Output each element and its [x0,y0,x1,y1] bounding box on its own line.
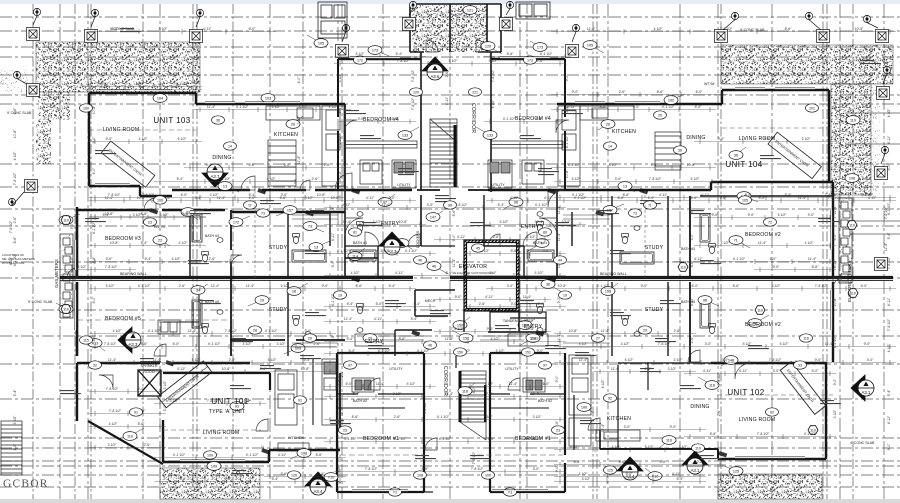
svg-text:102: 102 [668,98,674,102]
left wing bedroom5 bottom wall [77,362,250,364]
svg-text:9′-0″: 9′-0″ [331,260,335,268]
section marker A3.1 [851,375,874,401]
svg-text:8′-6″: 8′-6″ [619,460,627,464]
svg-text:7′-8 1/2″: 7′-8 1/2″ [887,318,891,331]
svg-text:172: 172 [233,220,239,224]
closet shelf lines mid band [292,215,610,347]
keynote 36 [541,280,562,292]
svg-text:6′-0″: 6′-0″ [812,369,820,373]
svg-text:11′-4″: 11′-4″ [297,155,301,164]
svg-text:10′-8″: 10′-8″ [222,367,231,371]
svg-text:9′-0″: 9′-0″ [712,213,720,217]
svg-text:3′-0″: 3′-0″ [427,203,435,207]
svg-text:7′-8 1/2″: 7′-8 1/2″ [142,193,155,197]
svg-text:92: 92 [608,396,612,400]
svg-text:36: 36 [734,153,738,157]
svg-text:3 1/2″: 3 1/2″ [210,193,220,197]
svg-text:101: 101 [809,106,815,110]
svg-text:5′-4″: 5′-4″ [785,193,793,197]
svg-text:2′-6″: 2′-6″ [394,415,402,419]
svg-text:7′-8 1/2″: 7′-8 1/2″ [757,432,770,436]
svg-text:3′-0″: 3′-0″ [281,193,289,197]
lower stair treads [460,371,486,440]
keynote 100 [577,403,594,413]
svg-text:DINING: DINING [212,155,231,161]
keynote 148 [737,192,758,202]
svg-text:10′-8″: 10′-8″ [687,163,696,167]
svg-text:4 1/2″: 4 1/2″ [243,342,253,346]
svg-text:115: 115 [83,338,89,342]
svg-text:BEARING WALL: BEARING WALL [600,272,627,276]
svg-text:4′-1 1/2″: 4′-1 1/2″ [138,284,151,288]
svg-text:3 1/2″: 3 1/2″ [163,380,167,390]
svg-text:110: 110 [127,434,133,438]
svg-text:6′-0″: 6′-0″ [261,444,265,452]
svg-text:4′-1 1/2″: 4′-1 1/2″ [833,335,837,348]
svg-text:KITCHEN: KITCHEN [607,416,631,422]
svg-text:BATH #1: BATH #1 [353,241,367,245]
svg-text:11′-4″: 11′-4″ [611,367,620,371]
concrete stipple: bottom-right patio [718,474,822,499]
svg-text:4′-11″: 4′-11″ [884,58,888,67]
column (342,51) [336,45,349,58]
svg-text:10′-8″: 10′-8″ [833,100,837,109]
svg-text:109: 109 [211,464,217,468]
svg-text:4′-11″: 4′-11″ [342,203,351,207]
svg-text:3 1/2″: 3 1/2″ [297,115,301,125]
svg-text:KITCHEN: KITCHEN [612,129,636,135]
svg-text:5 1/2″: 5 1/2″ [192,358,202,362]
svg-text:ELECTRIC METERS: ELECTRIC METERS [847,261,852,302]
unit 104 bottom / right wing top [488,182,833,190]
svg-text:2′-6″: 2′-6″ [318,472,326,476]
svg-text:6′-0″: 6′-0″ [249,27,257,31]
svg-text:104: 104 [157,96,163,100]
svg-text:f1: f1 [734,238,737,242]
svg-text:9′-0″: 9′-0″ [92,136,96,144]
svg-text:5′-4″: 5′-4″ [206,163,214,167]
svg-text:9′-0″: 9′-0″ [833,378,837,386]
unit 102 living walls [718,362,826,459]
svg-text:3′-0″: 3′-0″ [705,342,713,346]
svg-text:5 1/2″: 5 1/2″ [572,177,582,181]
keynote 119 [839,114,860,124]
svg-text:110: 110 [63,307,69,311]
svg-text:4′-1 1/2″: 4′-1 1/2″ [861,193,874,197]
svg-text:3 1/2″: 3 1/2″ [570,445,580,449]
svg-text:26: 26 [658,113,662,117]
svg-text:4 1/2″: 4 1/2″ [612,445,622,449]
svg-text:11′-4″: 11′-4″ [344,317,353,321]
svg-text:11′-4″: 11′-4″ [587,27,596,31]
svg-text:11′-4″: 11′-4″ [565,105,569,114]
svg-text:8′-6″: 8′-6″ [112,27,120,31]
svg-text:5′-4″: 5′-4″ [389,284,397,288]
svg-text:10′-8″: 10′-8″ [13,129,17,138]
svg-text:9′-0″: 9′-0″ [322,284,330,288]
svg-text:3 1/2″: 3 1/2″ [579,342,589,346]
concrete stipple: bottom-left patio [160,468,260,499]
entry vestibule walls right [484,195,524,278]
svg-text:11′-4″: 11′-4″ [557,333,561,342]
unit101 entry hall wall [230,339,345,341]
keynote 172 [229,216,250,226]
concrete stipple: top-right band [721,45,893,84]
bedroom band top walls [338,58,565,61]
svg-text:10′-8″: 10′-8″ [136,82,145,86]
svg-text:BEDROOM #2: BEDROOM #2 [745,322,781,328]
svg-text:7′-8 1/2″: 7′-8 1/2″ [825,193,838,197]
svg-text:4 1/2″: 4 1/2″ [139,137,149,141]
svg-text:125: 125 [607,468,613,472]
grid bubble flag [342,24,350,42]
svg-text:5 1/2″: 5 1/2″ [178,137,188,141]
column (33,90) [27,84,40,97]
upper stair dark stringer [454,125,457,187]
svg-text:4 1/2″: 4 1/2″ [805,241,815,245]
svg-text:11′-4″: 11′-4″ [523,295,532,299]
keynote 13 [309,241,330,251]
svg-text:8′-6″: 8′-6″ [452,209,456,217]
svg-text:2′-6″: 2′-6″ [209,257,217,261]
svg-text:4′-1 1/2″: 4′-1 1/2″ [344,437,357,441]
svg-text:4′-1 1/2″: 4′-1 1/2″ [804,432,817,436]
keynote f1 [729,236,750,248]
svg-text:2′-6″: 2′-6″ [312,177,320,181]
wall: unit103/corridor mid wall [172,189,412,191]
svg-text:28: 28 [253,328,257,332]
keynote 133 [476,127,497,139]
svg-text:23: 23 [556,428,560,432]
corridor walls top-center [420,52,422,190]
svg-text:5′-4″: 5′-4″ [543,249,551,253]
svg-text:5 1/2″: 5 1/2″ [535,271,545,275]
svg-text:4′-1 1/2″: 4′-1 1/2″ [394,437,407,441]
svg-text:148: 148 [728,358,734,362]
keynote H [528,239,549,251]
svg-text:8′-6″: 8′-6″ [13,107,17,115]
svg-text:10′-8″: 10′-8″ [92,105,96,114]
diagonal media center unit102 [780,362,826,415]
tandem closet center bottom [490,312,546,332]
keynote 109 [200,460,221,470]
section marker A3.1 [682,451,708,474]
svg-text:6′-0″: 6′-0″ [887,163,891,171]
bottom-right bedroom outline [490,353,565,492]
svg-text:120: 120 [413,90,419,94]
svg-text:A3.4: A3.4 [313,489,323,494]
svg-text:11′-4″: 11′-4″ [557,205,561,214]
svg-text:5′-4″: 5′-4″ [145,257,153,261]
keynote 173 [368,46,389,56]
kitchen 104 counters [558,106,681,186]
mech room walls [415,290,455,316]
keynote 29 [363,334,384,344]
svg-text:11′-4″: 11′-4″ [390,117,399,121]
svg-text:4′-1 1/2″: 4′-1 1/2″ [572,193,585,197]
lower stair shaft [455,356,457,368]
svg-text:4 1/2″: 4 1/2″ [113,329,123,333]
svg-text:4′-11″: 4′-11″ [445,96,449,105]
svg-text:10′-8″: 10′-8″ [301,367,310,371]
column (883,93) [877,87,890,100]
svg-text:A3.3: A3.3 [128,342,138,347]
svg-text:3 1/2″: 3 1/2″ [277,342,287,346]
svg-text:11′-4″: 11′-4″ [452,258,456,267]
keynote 133 [398,127,419,139]
svg-text:9′-0″: 9′-0″ [455,295,463,299]
bath fixtures right-center (unit104/102) [622,236,627,243]
svg-text:2′-6″: 2′-6″ [720,196,728,200]
svg-text:108: 108 [301,451,307,455]
diagonal wall bottom-left [88,421,163,464]
keynote 102 [664,94,685,104]
bath fixtures right wing [700,214,710,242]
svg-text:14: 14 [228,144,232,148]
svg-text:8′-6″: 8′-6″ [422,467,430,471]
svg-text:3 1/2″: 3 1/2″ [299,105,309,109]
keynote 96 [502,198,523,210]
svg-text:8′-6″: 8′-6″ [281,472,289,476]
svg-text:5 1/2″: 5 1/2″ [625,358,635,362]
svg-text:4′-11″: 4′-11″ [690,297,694,306]
svg-text:4′-1 1/2″: 4′-1 1/2″ [173,453,186,457]
svg-text:4′-1 1/2″: 4′-1 1/2″ [246,453,259,457]
svg-text:9′-0″: 9′-0″ [773,265,781,269]
svg-text:7′-8 1/2″: 7′-8 1/2″ [472,451,476,464]
svg-text:103: 103 [265,96,271,100]
svg-text:6′-0″: 6′-0″ [759,196,767,200]
svg-text:4′-11″: 4′-11″ [887,297,891,306]
svg-text:3′-0″: 3′-0″ [722,358,730,362]
svg-text:GAS METERS: GAS METERS [54,259,59,288]
svg-text:9' CONC SLAB: 9' CONC SLAB [28,300,53,304]
svg-text:10′-8″: 10′-8″ [558,284,567,288]
svg-text:3′-0″: 3′-0″ [358,117,366,121]
keynote 100 [59,214,80,224]
svg-text:7′-8 1/2″: 7′-8 1/2″ [104,342,117,346]
svg-text:4′-1 1/2″: 4′-1 1/2″ [568,163,581,167]
svg-text:4′-1 1/2″: 4′-1 1/2″ [13,253,17,266]
keynote 23 [181,208,198,220]
svg-text:7′-8 1/2″: 7′-8 1/2″ [471,467,484,471]
svg-text:7′-8 1/2″: 7′-8 1/2″ [451,327,464,331]
keynote 150 [453,317,470,329]
svg-text:UNIT 103: UNIT 103 [153,116,190,125]
svg-text:5′-4″: 5′-4″ [331,206,335,214]
svg-text:4′-11″: 4′-11″ [331,232,335,241]
svg-text:ENTRY: ENTRY [154,225,167,229]
svg-text:8′-6″: 8′-6″ [623,193,631,197]
svg-text:8′-6″: 8′-6″ [316,453,324,457]
svg-text:4′-11″: 4′-11″ [739,369,748,373]
svg-text:121: 121 [472,90,478,94]
mid-right bath walls [611,196,613,276]
svg-text:11′-4″: 11′-4″ [557,232,561,241]
svg-text:5 1/2″: 5 1/2″ [407,382,417,386]
svg-text:34: 34 [196,288,200,292]
svg-text:5 1/2″: 5 1/2″ [356,52,366,56]
walls below elevator [464,311,546,332]
svg-text:3 1/2″: 3 1/2″ [393,392,403,396]
svg-text:7′-8 1/2″: 7′-8 1/2″ [717,372,721,385]
svg-text:3 1/2″: 3 1/2″ [621,342,631,346]
svg-text:7′-8 1/2″: 7′-8 1/2″ [411,69,415,82]
svg-text:4′-1 1/2″: 4′-1 1/2″ [439,437,452,441]
svg-text:LIVING ROOM: LIVING ROOM [203,430,240,436]
svg-text:10′-8″: 10′-8″ [569,329,578,333]
upper corridor lobby walls [417,189,491,191]
svg-text:4′-1 1/2″: 4′-1 1/2″ [377,249,390,253]
svg-text:100: 100 [581,405,587,409]
svg-text:46: 46 [418,258,422,262]
left wing lower outer wall [76,363,78,421]
left wing inner wall [230,210,232,356]
svg-text:6′-0″: 6′-0″ [691,196,699,200]
keynote 13 [618,182,635,192]
svg-text:UNIT 104: UNIT 104 [725,160,762,169]
hex keynote [61,216,71,225]
svg-text:116: 116 [803,336,809,340]
left wing top wall [77,210,345,212]
keynote 46 [427,262,448,274]
svg-text:27: 27 [596,336,600,340]
svg-text:2′-6″: 2′-6″ [690,336,694,344]
svg-text:5 1/2″: 5 1/2″ [449,59,459,63]
gas meters strip [60,234,73,318]
keynote 120 [481,42,502,54]
left wing outer wall [76,207,79,356]
wardrobe closets top bedrooms [345,141,563,148]
svg-text:133: 133 [487,133,493,137]
svg-text:4 1/2″: 4 1/2″ [491,99,495,109]
window lines [75,57,832,491]
svg-text:11′-4″: 11′-4″ [382,203,391,207]
keynote 96 [698,296,719,306]
unit 104 top walls [557,90,829,104]
svg-text:Y10: Y10 [328,475,335,479]
keynote 147 [426,211,443,221]
keynote 144 [518,319,535,329]
svg-text:9′-0″: 9′-0″ [488,437,496,441]
keynote 103 [261,94,278,106]
svg-text:KITCHEN: KITCHEN [288,436,304,440]
svg-text:UTILITY: UTILITY [397,183,411,187]
svg-text:5′-4″: 5′-4″ [338,106,342,114]
column (572,51) [566,45,579,58]
svg-text:3 1/2″: 3 1/2″ [170,399,180,403]
svg-text:3′-0″: 3′-0″ [490,271,498,275]
svg-text:11′-4″: 11′-4″ [758,241,767,245]
unit 103 outline walls [89,93,345,104]
grid bubble flag [196,9,204,27]
mid-left bath walls [189,212,191,276]
svg-text:9' CONC SLAB: 9' CONC SLAB [7,111,32,115]
svg-text:96: 96 [514,200,518,204]
svg-text:5 1/2″: 5 1/2″ [645,445,655,449]
svg-text:96: 96 [703,298,707,302]
right wing room walls [700,195,833,197]
svg-text:5 1/2″: 5 1/2″ [268,358,278,362]
column (882,36) [876,30,889,43]
svg-text:11′-4″: 11′-4″ [211,284,220,288]
svg-text:5′-4″: 5′-4″ [353,392,361,396]
svg-text:6′-0″: 6′-0″ [297,76,301,84]
svg-text:3 1/2″: 3 1/2″ [305,196,315,200]
svg-text:5 1/2″: 5 1/2″ [281,284,291,288]
svg-text:13: 13 [623,184,627,188]
svg-text:LIVING ROOM: LIVING ROOM [739,417,776,423]
svg-text:36: 36 [546,282,550,286]
svg-text:4 1/2″: 4 1/2″ [329,105,339,109]
svg-text:9′-0″: 9′-0″ [537,349,545,353]
concrete stipple: top-left band [36,42,200,92]
lower corridor walls [424,491,433,493]
keynote 148 [721,356,738,366]
svg-text:5 1/2″: 5 1/2″ [780,342,790,346]
svg-text:6′-0″: 6′-0″ [423,358,427,366]
diagonal media center unit103 [101,141,154,187]
svg-text:2′-6″: 2′-6″ [660,460,668,464]
svg-text:9′-0″: 9′-0″ [487,327,495,331]
svg-text:5 1/2″: 5 1/2″ [500,220,510,224]
svg-text:5′-4″: 5′-4″ [195,196,203,200]
svg-text:3 1/2″: 3 1/2″ [833,409,837,419]
kitchen 102 counters [569,355,640,446]
svg-text:91: 91 [298,398,302,402]
keynote 34 [191,284,208,294]
section marker A3.3 [379,232,405,255]
grid bubble flag [881,146,889,164]
svg-text:6′-0″: 6′-0″ [690,206,694,214]
svg-text:4′-11″: 4′-11″ [374,317,383,321]
svg-text:4′-11″: 4′-11″ [395,271,404,275]
svg-text:8′-6″: 8′-6″ [690,260,694,268]
svg-text:8′-6″: 8′-6″ [833,163,837,171]
svg-text:4′-1 1/2″: 4′-1 1/2″ [176,82,189,86]
svg-text:8′-6″: 8′-6″ [138,422,146,426]
svg-text:13: 13 [223,184,227,188]
svg-text:126: 126 [291,473,297,477]
svg-text:11′-4″: 11′-4″ [601,329,610,333]
svg-text:4′-1 1/2″: 4′-1 1/2″ [337,249,350,253]
hex keynote [848,289,858,298]
svg-text:4′-11″: 4′-11″ [887,135,891,144]
svg-text:4 1/2″: 4 1/2″ [625,477,635,481]
bedroom4-left walls [337,59,339,190]
column (196,36) [190,30,203,43]
svg-text:11′-4″: 11′-4″ [207,105,216,109]
svg-text:108: 108 [417,473,423,477]
svg-text:3′-0″: 3′-0″ [624,425,632,429]
svg-text:7′-8 1/2″: 7′-8 1/2″ [365,467,378,471]
svg-text:3 1/2″: 3 1/2″ [108,443,118,447]
svg-text:8′-6″: 8′-6″ [141,212,149,216]
column (506,24) [500,18,513,31]
svg-text:8′-6″: 8′-6″ [511,249,519,253]
svg-text:4' CONC SLAB: 4' CONC SLAB [850,441,875,445]
svg-text:9′-0″: 9′-0″ [337,465,341,473]
svg-text:KITCHEN: KITCHEN [274,132,298,138]
svg-text:106: 106 [849,176,855,180]
keynote 118 [458,383,475,395]
keynote 26 [286,116,303,128]
svg-text:4′-1 1/2″: 4′-1 1/2″ [378,349,391,353]
svg-text:10′-8″: 10′-8″ [695,460,704,464]
hex keynote [678,263,688,272]
svg-text:26: 26 [308,336,312,340]
svg-text:9′-0″: 9′-0″ [70,222,74,230]
